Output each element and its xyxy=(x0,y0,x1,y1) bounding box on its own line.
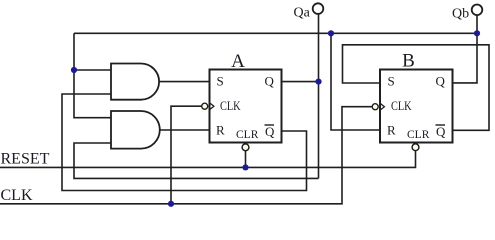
clear bubble (B) xyxy=(412,144,419,151)
junction: left riser at G1 top input xyxy=(71,67,77,73)
flip-flop U1 box xyxy=(210,70,282,143)
wire: Qb feedback top rail xyxy=(74,32,477,34)
svg-text:Q: Q xyxy=(265,74,275,89)
svg-text:S: S xyxy=(388,74,395,89)
wire: Qa return to G2 lower input xyxy=(74,143,319,178)
svg-text:R: R xyxy=(216,123,225,138)
clock bubble (B) xyxy=(372,104,378,110)
terminal Qa xyxy=(313,3,324,14)
svg-text:R: R xyxy=(387,123,396,138)
wire: top rail tap down to R of B xyxy=(331,33,380,130)
svg-text:Q: Q xyxy=(436,124,446,139)
node Qa vertical wire xyxy=(318,14,320,178)
and-gate G1 xyxy=(111,64,159,100)
junction: CLK line at A tap xyxy=(168,201,174,207)
svg-text:Qa: Qa xyxy=(294,6,311,21)
clock bubble (A) xyxy=(202,103,208,109)
wire: CLK bottom line to CLK of B xyxy=(0,107,372,204)
svg-text:RESET: RESET xyxy=(1,151,50,168)
svg-text:S: S xyxy=(217,74,224,89)
flip-flop U2 box xyxy=(380,70,453,143)
junction: RESET line at CLR of A xyxy=(242,164,248,170)
junction: top rail at R-B tap xyxy=(328,30,334,36)
wire: Q of B up to terminal Qb xyxy=(453,15,478,83)
wire: G1 top input from riser xyxy=(74,69,111,71)
wire: Q of A to node Qa xyxy=(282,81,319,83)
and-gate G2 xyxy=(111,111,160,149)
wire: Qbar of A return to G1 lower input xyxy=(62,94,307,191)
wire: Qbar of B feedback over top to S of B xyxy=(343,45,490,131)
clock edge triangle (B) xyxy=(380,103,384,110)
wire: left riser from top rail down to AND gate top inputs xyxy=(74,33,111,117)
wire: RESET line to CLR of B xyxy=(0,150,416,167)
svg-text:CLR: CLR xyxy=(236,129,259,141)
junction: Q of A with node Qa xyxy=(315,79,321,85)
svg-text:CLK: CLK xyxy=(391,98,412,113)
svg-text:Q: Q xyxy=(436,74,446,89)
wire: CLR of A drop to RESET line xyxy=(245,151,247,168)
svg-text:CLR: CLR xyxy=(407,129,430,141)
junction: top rail at Qb line xyxy=(474,30,480,36)
svg-text:Q: Q xyxy=(265,124,275,139)
wire: CLK tap up to CLK of A xyxy=(171,106,202,204)
clock edge triangle (A) xyxy=(210,103,214,110)
svg-text:Qb: Qb xyxy=(452,7,469,22)
terminal Qb xyxy=(472,5,483,16)
svg-text:A: A xyxy=(231,51,245,72)
svg-text:CLK: CLK xyxy=(220,98,241,113)
clear bubble (A) xyxy=(242,144,249,151)
wire: G1 output to S of A xyxy=(158,81,210,83)
wire: G2 output to R of A xyxy=(159,129,210,131)
svg-text:B: B xyxy=(402,51,415,72)
svg-text:CLK: CLK xyxy=(1,187,33,204)
